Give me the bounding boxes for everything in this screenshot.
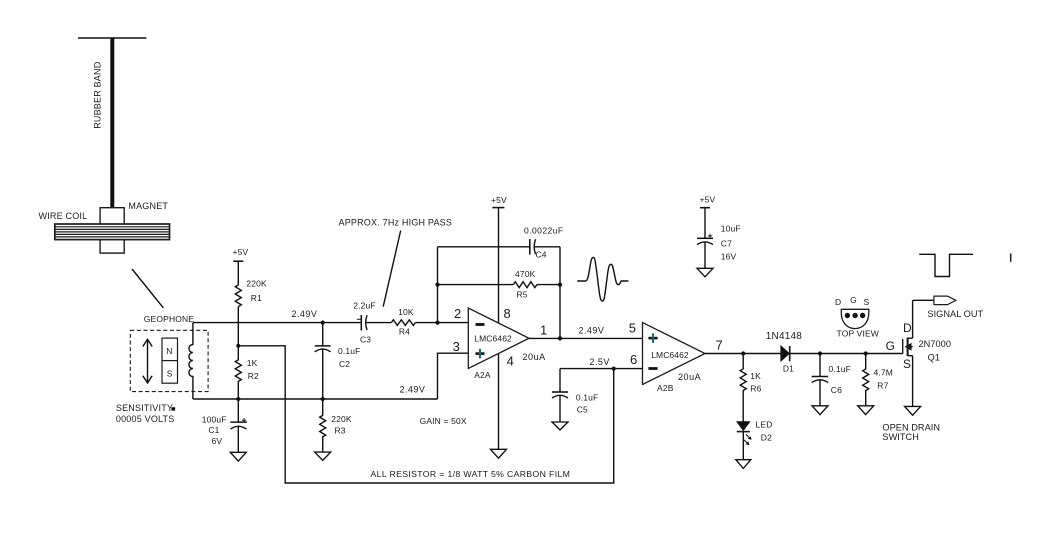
signal out connector: [934, 296, 956, 305]
svg-text:R7: R7: [877, 380, 888, 390]
svg-text:SWITCH: SWITCH: [882, 432, 919, 442]
capacitor C4 0.0022uF: [438, 225, 564, 259]
svg-text:R6: R6: [750, 384, 761, 394]
svg-text:R2: R2: [248, 371, 259, 381]
svg-text:SENSITIVITY: SENSITIVITY: [116, 403, 173, 413]
svg-text:R1: R1: [251, 293, 262, 303]
tick mark I: [1010, 254, 1012, 262]
op-amp A2B: [643, 323, 706, 394]
svg-text:+5V: +5V: [491, 195, 507, 205]
node output feedback: [558, 336, 562, 340]
capacitor C6 0.1uF: [812, 354, 851, 406]
svg-text:S: S: [864, 297, 870, 307]
ground at D2: [736, 460, 751, 469]
svg-text:6V: 6V: [212, 436, 223, 446]
svg-text:8: 8: [504, 306, 511, 321]
rubber band (thick pendulum line): [110, 38, 114, 208]
capacitor C5 0.1uF: [552, 369, 598, 422]
resistor R6 1K: [740, 354, 761, 422]
wire: main top signal wire: [193, 322, 361, 324]
resistor R1 220K: [235, 261, 267, 346]
svg-text:APPROX. 7Hz HIGH PASS: APPROX. 7Hz HIGH PASS: [339, 217, 453, 227]
svg-text:C2: C2: [339, 359, 350, 369]
svg-text:D1: D1: [783, 364, 794, 374]
ground at A2A pin 4: [491, 449, 507, 458]
svg-text:TOP VIEW: TOP VIEW: [837, 328, 879, 338]
node R5 left: [435, 283, 439, 287]
svg-text:220K: 220K: [331, 414, 352, 424]
+5V symbol at C7: [700, 194, 716, 207]
node bottom wire at R3: [321, 397, 325, 401]
node at C6: [818, 351, 822, 355]
svg-text:C5: C5: [577, 404, 588, 414]
ground at R7: [858, 406, 874, 415]
ground at C6: [812, 406, 828, 415]
svg-text:GAIN = 50X: GAIN = 50X: [420, 416, 467, 426]
node at R1/R2 junction: [236, 344, 240, 348]
resistor R2 1K: [235, 346, 259, 399]
node 2.5V rail junction: [612, 367, 616, 371]
pulse waveform sketch: [919, 254, 973, 276]
pendulum support bar: [78, 37, 146, 39]
node at R7: [864, 351, 868, 355]
svg-text:D2: D2: [761, 433, 772, 443]
wire pin 8 supply: [498, 208, 500, 324]
svg-text:R5: R5: [517, 290, 528, 300]
resistor R4 10K: [391, 307, 468, 336]
node main wire at C2: [321, 321, 325, 325]
svg-text:C6: C6: [831, 385, 842, 395]
node R5 right: [558, 283, 562, 287]
TO-92 package top view: [841, 309, 869, 328]
wire: 2.5V wire to pin 6: [560, 368, 643, 370]
geophone dashed box: [130, 330, 208, 391]
svg-text:2.49V: 2.49V: [292, 309, 318, 319]
svg-text:A2A: A2A: [474, 370, 491, 380]
wire junction to bottom rail: [238, 346, 613, 483]
svg-text:Q1: Q1: [928, 353, 940, 363]
resistor R7 4.7M: [863, 354, 893, 406]
svg-text:20uA: 20uA: [678, 372, 701, 382]
wire pin 4 to ground: [498, 354, 500, 450]
svg-text:1K: 1K: [750, 371, 761, 381]
svg-text:N: N: [166, 346, 172, 356]
waveform sketch: [577, 257, 628, 301]
svg-text:4: 4: [507, 353, 514, 368]
svg-text:LED: LED: [756, 420, 773, 430]
wire: feedback left vertical: [437, 247, 439, 323]
svg-text:2: 2: [454, 306, 461, 321]
TO-92 pin dots: [845, 313, 850, 318]
svg-text:1: 1: [540, 322, 547, 337]
svg-text:10uF: 10uF: [721, 223, 741, 233]
wire: A2B output: [705, 353, 781, 355]
ground at R3: [315, 452, 331, 460]
svg-text:2N7000: 2N7000: [919, 339, 951, 349]
svg-text:S: S: [167, 369, 173, 379]
pointer line note to C3: [383, 231, 401, 307]
svg-text:2.49V: 2.49V: [579, 326, 605, 336]
svg-text:RUBBER BAND: RUBBER BAND: [93, 61, 103, 129]
svg-text:SIGNAL OUT: SIGNAL OUT: [927, 309, 983, 319]
wire coil (hatched block): [55, 224, 170, 240]
svg-text:20uA: 20uA: [523, 352, 546, 362]
resistor R3 220K: [320, 399, 352, 452]
capacitor C1 100uF: [202, 399, 247, 452]
svg-text:7: 7: [716, 338, 723, 353]
geophone motion arrow: [143, 339, 152, 383]
svg-text:2.49V: 2.49V: [400, 385, 426, 395]
node main wire at feedback: [435, 321, 439, 325]
svg-text:16V: 16V: [721, 252, 737, 262]
svg-text:G: G: [850, 295, 857, 305]
node at R6: [741, 351, 745, 355]
ground at Q1 source: [905, 406, 921, 415]
svg-text:C3: C3: [360, 335, 371, 345]
svg-text:0.1uF: 0.1uF: [576, 393, 599, 403]
wire: geophone bottom wire: [193, 398, 438, 400]
svg-text:0.0022uF: 0.0022uF: [524, 225, 564, 235]
wire: feedback right vertical: [559, 247, 561, 339]
svg-text:2.2uF: 2.2uF: [353, 300, 376, 310]
+5V symbol at R1: [233, 247, 249, 261]
svg-text:LMC6462: LMC6462: [651, 350, 689, 360]
svg-text:0.1uF: 0.1uF: [829, 364, 852, 374]
svg-text:A2B: A2B: [657, 383, 674, 393]
svg-text:+5V: +5V: [700, 194, 716, 204]
capacitor C2 0.1uF: [315, 323, 361, 399]
svg-text:00005 VOLTS: 00005 VOLTS: [116, 414, 175, 424]
svg-text:470K: 470K: [515, 269, 536, 279]
svg-text:G: G: [886, 339, 895, 353]
wire: drain to signal out: [913, 299, 934, 301]
capacitor C3 2.2uF: [353, 300, 391, 344]
svg-text:4.7M: 4.7M: [874, 368, 894, 378]
svg-text:1K: 1K: [247, 358, 258, 368]
LED D2: [737, 420, 773, 460]
ground at C1: [230, 452, 246, 461]
svg-text:D: D: [835, 297, 841, 307]
wire: riser to pin 3: [438, 353, 469, 399]
svg-text:C1: C1: [208, 425, 219, 435]
svg-text:D: D: [903, 321, 912, 335]
resistor R5 470K: [438, 269, 561, 300]
svg-text:+5V: +5V: [233, 247, 249, 257]
geophone magnet N/S: [162, 338, 178, 383]
pointer line coil to geophone: [132, 269, 163, 308]
svg-text:R4: R4: [399, 326, 410, 336]
node bottom wire at R2: [236, 397, 240, 401]
svg-text:0.1uF: 0.1uF: [338, 346, 361, 356]
magnet rectangle: [100, 208, 124, 253]
geophone coil inductor: [189, 323, 193, 399]
op-amp A2A: [468, 308, 529, 380]
svg-text:1N4148: 1N4148: [766, 331, 802, 342]
svg-text:LMC6462: LMC6462: [474, 333, 512, 343]
ground at C7: [697, 268, 713, 277]
wire: A2A output to A2B pin 5: [529, 337, 643, 339]
svg-text:C7: C7: [721, 239, 732, 249]
transistor Q1 2N7000: [886, 300, 951, 406]
svg-text:R3: R3: [335, 426, 346, 436]
svg-text:MAGNET: MAGNET: [128, 201, 168, 211]
svg-text:WIRE COIL: WIRE COIL: [39, 211, 88, 221]
svg-text:6: 6: [630, 352, 637, 367]
capacitor C7 10uF: [697, 208, 741, 269]
svg-text:S: S: [903, 357, 911, 371]
svg-text:220K: 220K: [246, 279, 267, 289]
ground at C5: [552, 422, 568, 430]
svg-text:3: 3: [453, 339, 460, 354]
svg-text:C4: C4: [536, 250, 547, 260]
svg-text:100uF: 100uF: [202, 414, 227, 424]
svg-text:5: 5: [629, 321, 636, 336]
diode D1 1N4148: [766, 331, 903, 374]
+5V symbol at A2A pin 8: [491, 195, 507, 208]
svg-text:10K: 10K: [398, 307, 414, 317]
svg-text:ALL RESISTOR = 1/8 WATT 5% CAR: ALL RESISTOR = 1/8 WATT 5% CARBON FILM: [371, 469, 571, 479]
svg-text:2.5V: 2.5V: [590, 357, 610, 367]
svg-text:GEOPHONE: GEOPHONE: [144, 314, 195, 324]
